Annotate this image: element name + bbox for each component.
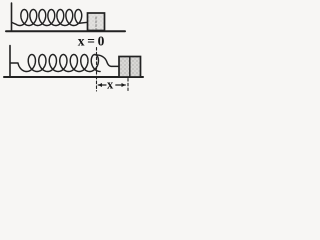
svg-text:x = 0: x = 0 <box>78 34 105 49</box>
svg-text:x: x <box>107 77 114 91</box>
